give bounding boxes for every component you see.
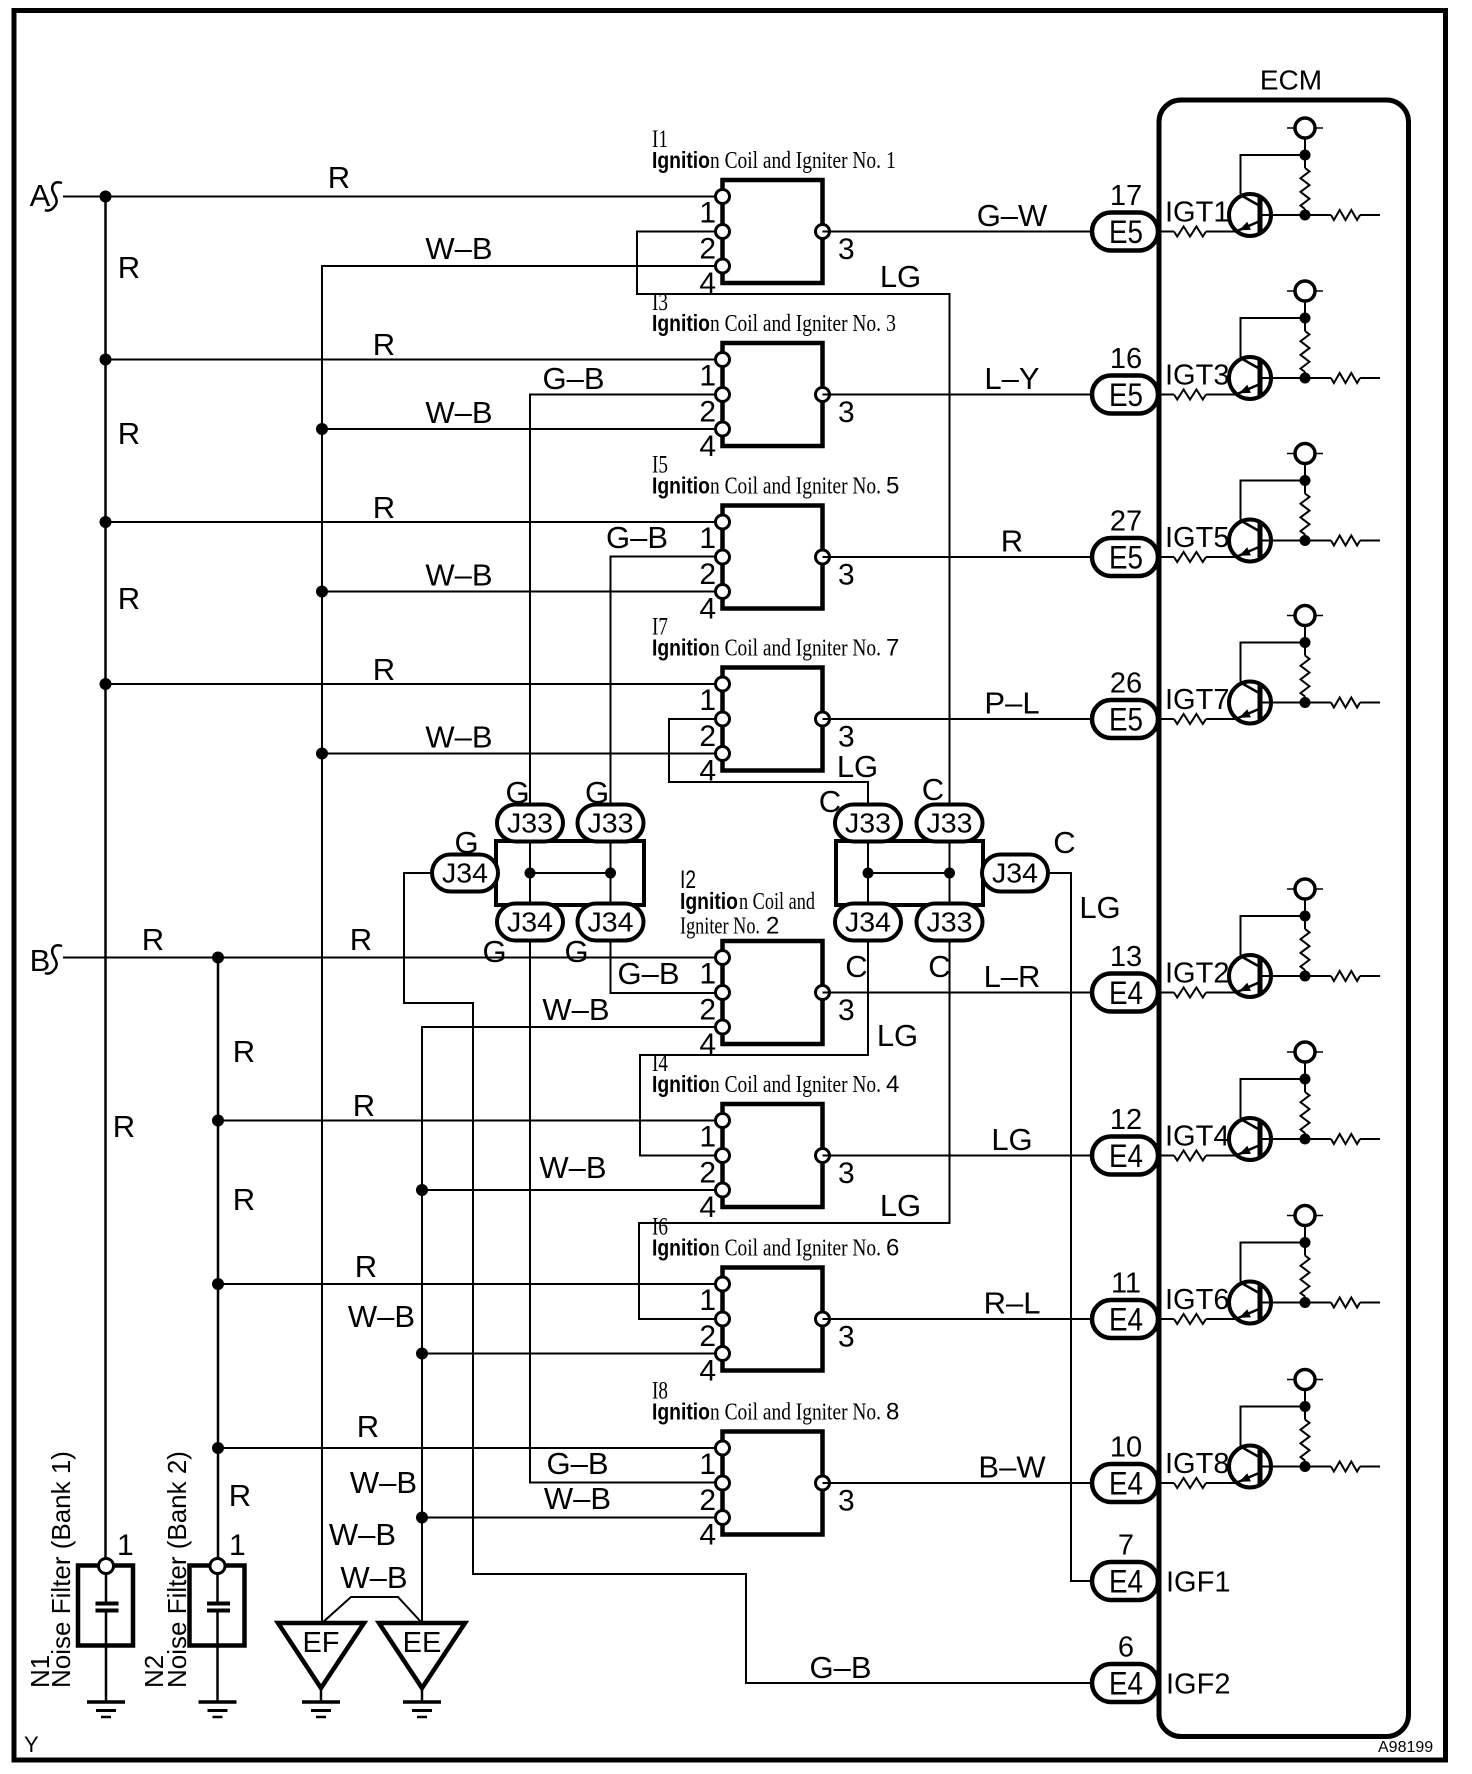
svg-text:IGT2: IGT2: [1165, 958, 1229, 990]
connector J34 (G bottom right): [578, 904, 644, 941]
svg-text:LG: LG: [991, 1122, 1032, 1157]
connector J34 (C right): [982, 855, 1048, 892]
svg-text:J34: J34: [992, 858, 1038, 889]
svg-text:W–B: W–B: [539, 1150, 606, 1185]
svg-text:C: C: [819, 784, 841, 819]
svg-text:6: 6: [886, 1235, 899, 1262]
svg-text:17: 17: [1110, 180, 1142, 212]
svg-text:1: 1: [699, 684, 716, 717]
svg-text:3: 3: [886, 311, 896, 337]
wire W-B from I7 pin 4: [322, 753, 723, 755]
svg-text:8: 8: [886, 1399, 899, 1426]
EF ground stub and symbol: [320, 1688, 323, 1702]
svg-text:2: 2: [699, 1320, 716, 1353]
ignition coil and igniter I8: [716, 1432, 830, 1535]
wire LG from junction J33 (C) to I6 pin 2: [639, 940, 950, 1319]
svg-text:6: 6: [1118, 1632, 1134, 1664]
svg-text:G–B: G–B: [809, 1650, 871, 1685]
svg-text:27: 27: [1110, 506, 1142, 538]
svg-text:R: R: [118, 416, 140, 451]
label I7 title: [652, 635, 899, 662]
svg-text:R: R: [229, 1478, 251, 1513]
label G wire marks around junction G: [454, 775, 609, 969]
ignition coil and igniter I3: [716, 343, 830, 446]
connector E4 pin 12: [1092, 1104, 1158, 1175]
connector E4 pin 6: [1092, 1632, 1158, 1703]
svg-text:IGT5: IGT5: [1165, 522, 1229, 554]
transistor driver IGT5: [1158, 444, 1380, 563]
transistor driver IGT3: [1158, 281, 1380, 400]
EE ground stub and symbol: [421, 1688, 424, 1702]
wire R to I5 pin 1: [106, 521, 723, 523]
svg-text:G: G: [505, 775, 529, 810]
svg-text:R: R: [142, 922, 164, 957]
svg-text:3: 3: [838, 1485, 855, 1518]
ignition coil and igniter I5: [716, 506, 830, 609]
svg-text:IGT7: IGT7: [1165, 684, 1229, 716]
label I2 pin numbers: [699, 958, 854, 1062]
svg-text:EF: EF: [302, 1627, 339, 1659]
label N2 Noise Filter (Bank 2): [139, 1451, 192, 1688]
label C wire marks around junction C: [819, 772, 1076, 984]
junction dots on R bus A: [100, 191, 112, 691]
svg-text:2: 2: [699, 396, 716, 429]
svg-text:1: 1: [886, 148, 896, 174]
svg-text:Y: Y: [24, 1732, 39, 1757]
svg-text:4: 4: [699, 1355, 716, 1388]
wire G-B from I5 pin 2 to junction J33 (G): [611, 557, 723, 807]
svg-text:G–B: G–B: [542, 361, 604, 396]
label I1 pin numbers: [699, 197, 854, 301]
connector J33 (G top left): [497, 805, 563, 842]
svg-text:R: R: [1001, 524, 1023, 559]
connector J33 (C top left): [835, 805, 901, 842]
svg-text:4: 4: [699, 755, 716, 788]
svg-text:3: 3: [838, 559, 855, 592]
svg-text:2: 2: [699, 233, 716, 266]
wire W-B from I8 pin 4: [422, 1517, 723, 1519]
wire I4 pin 3 to ECM: [823, 1155, 1093, 1157]
svg-text:R–L: R–L: [984, 1286, 1041, 1321]
svg-text:W–B: W–B: [348, 1299, 415, 1334]
svg-text:IGT3: IGT3: [1165, 360, 1229, 392]
svg-text:G: G: [482, 934, 506, 969]
svg-text:R: R: [373, 490, 395, 525]
label I8 pin numbers: [699, 1448, 854, 1552]
svg-text:E4: E4: [1109, 1564, 1143, 1600]
svg-text:LG: LG: [880, 1188, 921, 1223]
wire I7 pin 3 to ECM: [823, 718, 1093, 720]
svg-text:1: 1: [699, 360, 716, 393]
svg-text:Noise Filter (Bank 2): Noise Filter (Bank 2): [162, 1451, 192, 1688]
svg-text:E4: E4: [1109, 1466, 1143, 1502]
label I4 title: [652, 1071, 899, 1098]
svg-text:7: 7: [1118, 1530, 1134, 1562]
svg-text:3: 3: [838, 396, 855, 429]
svg-text:G: G: [564, 934, 588, 969]
svg-text:W–B: W–B: [340, 1560, 407, 1595]
svg-text:n Coil and Igniter No.: n Coil and Igniter No.: [710, 311, 881, 337]
wire R from B to I2 pin 1: [63, 957, 723, 959]
ignition coil and igniter I4: [716, 1104, 830, 1207]
svg-text:4: 4: [886, 1071, 899, 1098]
svg-text:n Coil and Igniter No.: n Coil and Igniter No.: [710, 1236, 881, 1262]
svg-text:G: G: [585, 775, 609, 810]
junction block C (right): [836, 841, 983, 905]
wire I8 pin 3 to ECM: [823, 1482, 1093, 1484]
svg-text:J33: J33: [507, 808, 553, 839]
svg-text:3: 3: [838, 1321, 855, 1354]
wire LG from I1 pin 2 to junction J33 (C): [637, 232, 950, 807]
connector E4 pin 11: [1092, 1268, 1158, 1339]
svg-text:P–L: P–L: [984, 686, 1039, 721]
svg-text:ECM: ECM: [1260, 65, 1322, 96]
junction dots on R bus B: [212, 952, 224, 1455]
label I7 pin numbers: [699, 684, 854, 788]
svg-text:Noise Filter (Bank 1): Noise Filter (Bank 1): [46, 1451, 76, 1688]
svg-text:LG: LG: [1079, 890, 1120, 925]
label I5 title: [652, 473, 899, 500]
noise filter N1: [78, 1559, 133, 1703]
svg-text:J33: J33: [588, 808, 634, 839]
connector E4 pin 7: [1092, 1530, 1158, 1601]
svg-text:2: 2: [699, 720, 716, 753]
svg-text:IGT8: IGT8: [1165, 1448, 1229, 1480]
ECM block outline: [1159, 100, 1409, 1737]
svg-text:4: 4: [699, 430, 716, 463]
connector J34 (G bottom left): [497, 904, 563, 941]
ground for N1: [87, 1702, 125, 1717]
svg-text:R: R: [118, 250, 140, 285]
svg-text:LG: LG: [877, 1018, 918, 1053]
label I4 pin numbers: [699, 1121, 854, 1225]
junction dots on W-B column EE: [416, 1184, 428, 1524]
label I3 title: [652, 310, 896, 337]
transistor driver IGT6: [1158, 1206, 1380, 1325]
svg-text:26: 26: [1110, 668, 1142, 700]
svg-text:E4: E4: [1109, 1138, 1143, 1174]
junction dots on W-B column EF: [316, 423, 328, 760]
svg-text:2: 2: [699, 558, 716, 591]
svg-text:R: R: [373, 652, 395, 687]
wire LG from junction J34 (C) to ECM IGF1: [1047, 873, 1092, 1581]
svg-text:W–B: W–B: [542, 992, 609, 1027]
svg-text:LG: LG: [837, 749, 878, 784]
svg-text:n Coil and Igniter No.: n Coil and Igniter No.: [710, 148, 881, 174]
svg-text:C: C: [1053, 825, 1075, 860]
connector J33 (C top right): [917, 805, 983, 842]
svg-text:W–B: W–B: [329, 1517, 396, 1552]
wire R to I7 pin 1: [106, 683, 723, 685]
svg-text:C: C: [845, 949, 867, 984]
svg-text:W–B: W–B: [544, 1481, 611, 1516]
svg-text:3: 3: [838, 233, 855, 266]
svg-text:R: R: [373, 327, 395, 362]
svg-text:11: 11: [1111, 1268, 1141, 1300]
svg-text:1: 1: [117, 1529, 134, 1562]
svg-text:G–W: G–W: [977, 198, 1048, 233]
svg-text:IGT4: IGT4: [1165, 1121, 1229, 1153]
transistor driver IGT4: [1158, 1042, 1380, 1161]
noise filter N2: [190, 1559, 245, 1703]
wire W-B from I1 pin 4 down to ground EF: [322, 266, 723, 1623]
wire G-B from junction J34 (G) to I2 pin 2: [611, 940, 723, 993]
svg-text:W–B: W–B: [425, 558, 492, 593]
svg-text:EE: EE: [403, 1627, 442, 1659]
svg-text:LG: LG: [880, 259, 921, 294]
ignition coil and igniter I2: [716, 941, 830, 1044]
svg-text:2: 2: [699, 994, 716, 1027]
connector J34 (G left): [432, 855, 498, 892]
svg-text:C: C: [922, 772, 944, 807]
connector E4 pin 13: [1092, 941, 1158, 1012]
wire W-B from I2 pin 4 down to ground EE: [422, 1027, 723, 1623]
label I8 title: [652, 1399, 899, 1426]
svg-text:R: R: [357, 1409, 379, 1444]
svg-text:E5: E5: [1109, 377, 1143, 413]
wire R to I6 pin 1: [218, 1283, 723, 1285]
svg-text:4: 4: [699, 1028, 716, 1061]
svg-text:n Coil and Igniter No.: n Coil and Igniter No.: [710, 636, 881, 662]
svg-text:IGF1: IGF1: [1166, 1567, 1230, 1599]
label I2 title: [680, 888, 815, 940]
wire W-B from I6 pin 4: [422, 1353, 723, 1355]
wire LG from I7 pin 2 to junction J33 (C): [669, 719, 868, 806]
label I3 pin numbers: [699, 360, 854, 464]
svg-text:J33: J33: [845, 808, 891, 839]
transistor driver IGT1: [1158, 118, 1380, 237]
svg-text:2: 2: [766, 913, 779, 940]
ground point EF: [278, 1623, 364, 1688]
svg-text:IGT6: IGT6: [1165, 1284, 1229, 1316]
svg-text:4: 4: [699, 1191, 716, 1224]
connector E4 pin 10: [1092, 1432, 1158, 1503]
svg-text:1: 1: [699, 1284, 716, 1317]
svg-text:4: 4: [699, 1519, 716, 1552]
svg-text:10: 10: [1110, 1432, 1142, 1464]
svg-text:J33: J33: [927, 808, 973, 839]
svg-text:E5: E5: [1109, 702, 1143, 738]
svg-text:C: C: [928, 949, 950, 984]
svg-text:R: R: [328, 160, 350, 195]
svg-text:Ignitio: Ignitio: [652, 1235, 710, 1261]
connector J34 (C bottom left): [835, 904, 901, 941]
wire W-B bridge between EF and EE: [322, 1597, 422, 1623]
svg-text:1: 1: [699, 197, 716, 230]
svg-text:n Coil and: n Coil and: [739, 889, 815, 915]
svg-text:IGT1: IGT1: [1165, 197, 1229, 229]
svg-text:W–B: W–B: [425, 720, 492, 755]
svg-text:n Coil and Igniter No.: n Coil and Igniter No.: [710, 474, 881, 500]
wire R to I8 pin 1: [218, 1447, 723, 1449]
svg-text:3: 3: [838, 1157, 855, 1190]
wire I5 pin 3 to ECM: [823, 556, 1093, 558]
ground for N2: [199, 1702, 237, 1717]
label I6 title: [652, 1235, 899, 1262]
label N1 Noise Filter (Bank 1): [25, 1451, 76, 1688]
wire G-B from I3 pin 2 to junction J33 (G): [530, 395, 723, 807]
svg-text:1: 1: [699, 958, 716, 991]
svg-text:Ignitio: Ignitio: [652, 147, 710, 173]
label I6 pin numbers: [699, 1284, 854, 1388]
wire W-B from I3 pin 4: [322, 428, 723, 430]
svg-text:J34: J34: [507, 907, 553, 938]
transistor driver IGT8: [1158, 1370, 1380, 1489]
svg-text:4: 4: [699, 267, 716, 300]
connector J33 (C bottom right): [917, 904, 983, 941]
label I1 title: [652, 147, 896, 174]
svg-text:R: R: [113, 1109, 135, 1144]
label I5 pin numbers: [699, 522, 854, 626]
wire W-B from I5 pin 4: [322, 591, 723, 593]
svg-text:L–Y: L–Y: [984, 361, 1039, 396]
svg-text:Igniter No.: Igniter No.: [680, 914, 760, 940]
connector J33 (G top right): [578, 805, 644, 842]
svg-text:12: 12: [1110, 1104, 1142, 1136]
transistor driver IGT2: [1158, 879, 1380, 998]
svg-text:R: R: [118, 581, 140, 616]
svg-text:E4: E4: [1109, 1302, 1143, 1338]
wire I6 pin 3 to ECM: [823, 1318, 1093, 1320]
svg-text:R: R: [353, 1088, 375, 1123]
svg-text:2: 2: [699, 1157, 716, 1190]
svg-text:G–B: G–B: [546, 1446, 608, 1481]
svg-text:n Coil and Igniter No.: n Coil and Igniter No.: [710, 1400, 881, 1426]
ignition coil and igniter I7: [716, 668, 830, 771]
svg-text:1: 1: [699, 1448, 716, 1481]
svg-text:J34: J34: [442, 858, 488, 889]
svg-text:A98199: A98199: [1378, 1739, 1433, 1756]
wire G-B from junction J34 (G) to I8 pin 2: [530, 940, 723, 1483]
svg-text:Ignitio: Ignitio: [652, 310, 710, 336]
svg-text:E5: E5: [1109, 540, 1143, 576]
svg-text:3: 3: [838, 994, 855, 1027]
svg-text:2: 2: [699, 1484, 716, 1517]
wire I3 pin 3 to ECM: [823, 394, 1093, 396]
svg-text:G–B: G–B: [606, 520, 668, 555]
wire I2 pin 3 to ECM: [823, 992, 1093, 994]
svg-text:13: 13: [1110, 941, 1142, 973]
wire R to I3 pin 1: [106, 359, 723, 361]
svg-text:1: 1: [699, 1121, 716, 1154]
svg-text:J33: J33: [927, 907, 973, 938]
wire R bus column from B junction down to noise filter N2: [217, 958, 220, 1567]
svg-text:E4: E4: [1109, 975, 1143, 1011]
svg-text:J34: J34: [588, 907, 634, 938]
internal wires of junction block G: [525, 841, 617, 905]
connector E5 pin 17: [1092, 180, 1158, 251]
svg-text:4: 4: [699, 593, 716, 626]
svg-text:R: R: [355, 1249, 377, 1284]
svg-text:G–B: G–B: [617, 956, 679, 991]
ignition coil and igniter I6: [716, 1268, 830, 1371]
svg-text:Ignitio: Ignitio: [652, 1399, 710, 1425]
svg-text:W–B: W–B: [350, 1465, 417, 1500]
wire W-B from I4 pin 4: [422, 1189, 723, 1191]
wire R from A to I1 pin 1: [63, 196, 723, 198]
svg-text:W–B: W–B: [425, 395, 492, 430]
svg-text:R: R: [350, 922, 372, 957]
svg-text:Ignitio: Ignitio: [652, 635, 710, 661]
wire R bus column from A junction down to noise filter N1: [104, 197, 107, 1567]
svg-text:L–R: L–R: [984, 959, 1041, 994]
svg-text:R: R: [233, 1034, 255, 1069]
ground point EE: [379, 1623, 465, 1688]
svg-text:Ignitio: Ignitio: [652, 1071, 710, 1097]
svg-text:n Coil and Igniter No.: n Coil and Igniter No.: [710, 1072, 881, 1098]
connector E5 pin 16: [1092, 343, 1158, 414]
svg-text:Ignitio: Ignitio: [652, 473, 710, 499]
wire R to I4 pin 1: [218, 1120, 723, 1122]
internal wires of junction block C: [863, 841, 956, 905]
svg-text:1: 1: [229, 1529, 246, 1562]
svg-text:7: 7: [886, 635, 899, 662]
connector E5 pin 26: [1092, 668, 1158, 739]
transistor driver IGT7: [1158, 606, 1380, 725]
svg-text:J34: J34: [845, 907, 891, 938]
svg-text:E4: E4: [1109, 1666, 1143, 1702]
svg-text:G: G: [454, 825, 478, 860]
junction block G (left): [496, 841, 644, 905]
connector E5 pin 27: [1092, 506, 1158, 577]
svg-text:R: R: [233, 1182, 255, 1217]
svg-text:B–W: B–W: [978, 1450, 1046, 1485]
wire LG from junction J34 (C) to I4 pin 2: [640, 940, 868, 1156]
svg-text:1: 1: [699, 522, 716, 555]
svg-text:5: 5: [886, 473, 899, 500]
svg-text:Ignitio: Ignitio: [680, 888, 738, 914]
ignition coil and igniter I1: [716, 180, 830, 283]
wire I1 pin 3 to ECM: [823, 231, 1093, 233]
wire G-B from junction J34 (G) to ECM IGF2: [404, 873, 1092, 1683]
svg-text:16: 16: [1110, 343, 1142, 375]
svg-text:W–B: W–B: [425, 231, 492, 266]
svg-text:A: A: [30, 178, 51, 213]
svg-text:E5: E5: [1109, 214, 1143, 250]
svg-text:IGF2: IGF2: [1166, 1669, 1230, 1701]
